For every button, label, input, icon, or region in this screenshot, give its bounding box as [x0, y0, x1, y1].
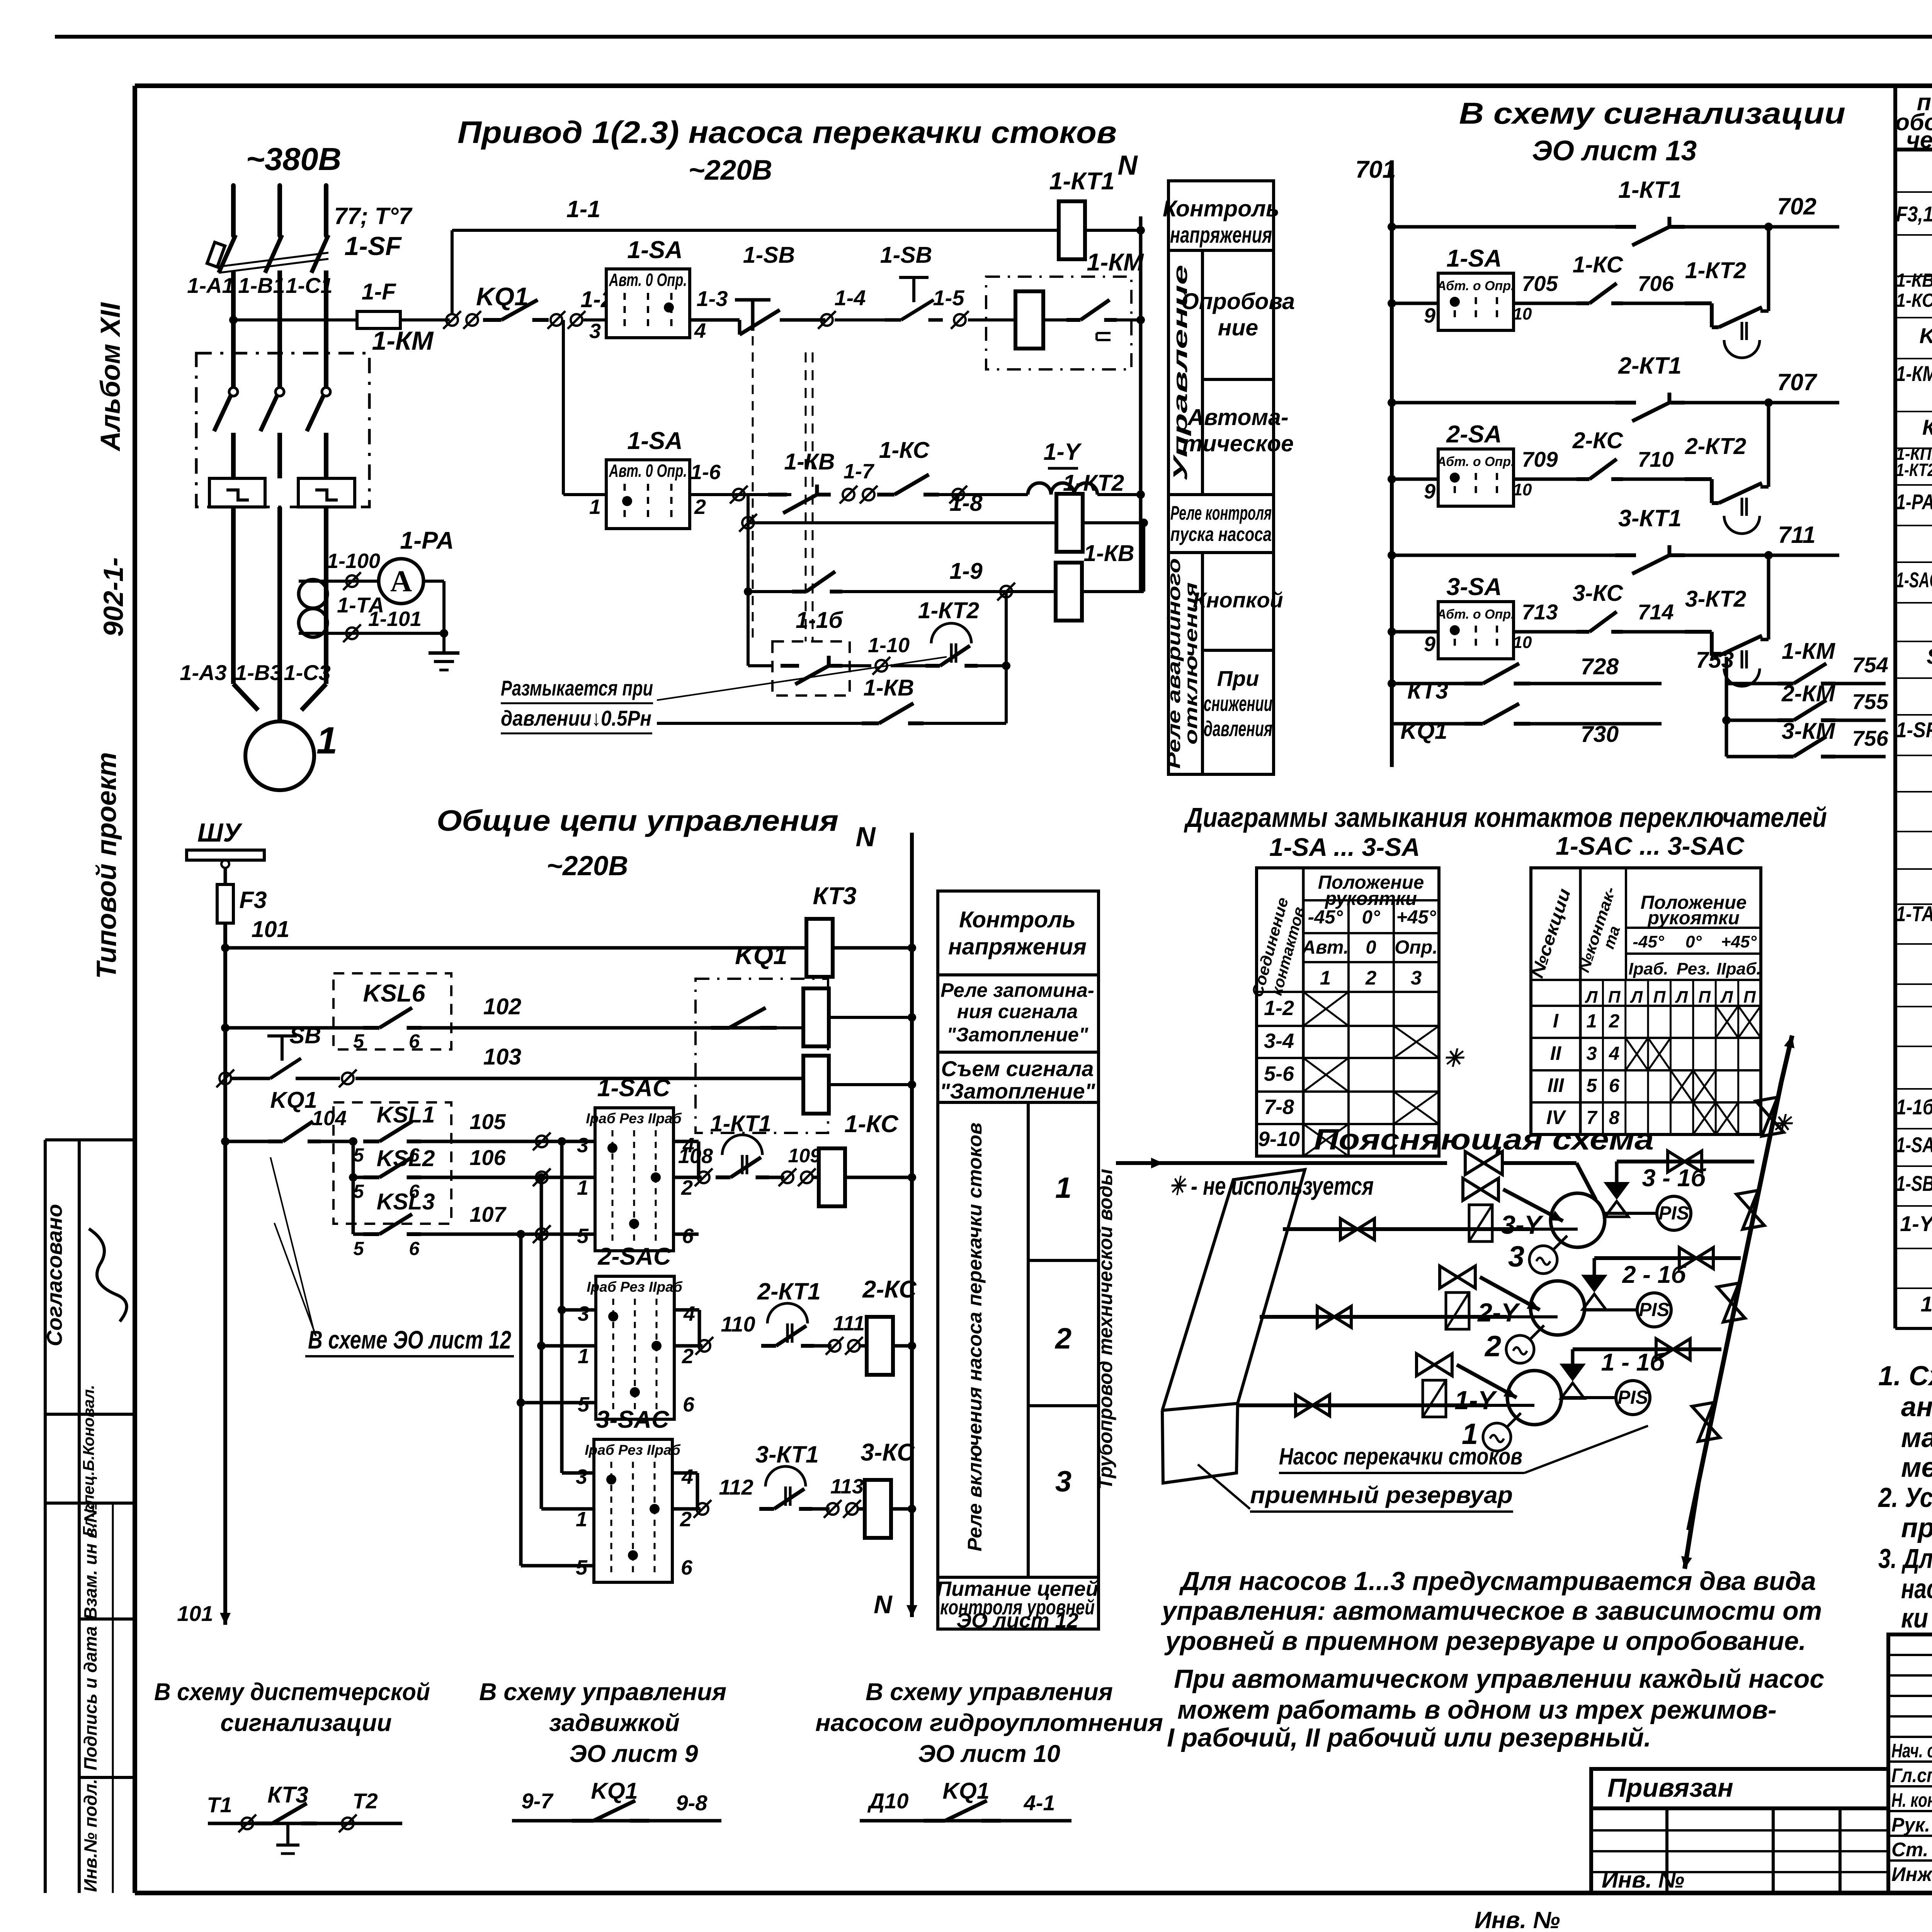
svg-text:N: N [1117, 150, 1138, 181]
contact 2-КТ1 rung 707 [1388, 398, 1396, 407]
svg-text:902-1-: 902-1- [99, 557, 129, 636]
svg-text:Абт. о Опр.: Абт. о Опр. [1436, 607, 1514, 622]
component list table [1893, 86, 1897, 1328]
svg-text:Альбом XII: Альбом XII [95, 302, 126, 452]
svg-text:ЭО лист 12: ЭО лист 12 [956, 1609, 1078, 1632]
selector 1-SA (lower) [562, 320, 565, 495]
svg-text:рукоятки: рукоятки [1647, 908, 1740, 929]
svg-text:111: 111 [833, 1312, 865, 1335]
svg-text:1-КС: 1-КС [879, 437, 930, 463]
solenoid valve 2-Y [1440, 1266, 1475, 1288]
svg-text:713: 713 [1522, 600, 1558, 624]
svg-text:приемный резервуар: приемный резервуар [1250, 1482, 1513, 1508]
svg-text:1-КМ: 1-КМ [1087, 249, 1144, 276]
svg-text:KQ1: KQ1 [735, 941, 787, 969]
svg-text:1-4: 1-4 [835, 286, 866, 310]
svg-text:2: 2 [681, 1176, 693, 1199]
svg-text:Автома-: Автома- [1187, 405, 1288, 430]
svg-text:Трубопровод технической воды: Трубопровод технической воды [1094, 1169, 1116, 1490]
svg-text:1: 1 [1320, 967, 1331, 989]
svg-text:1-КТ2: 1-КТ2 [918, 598, 979, 623]
svg-text:753: 753 [1696, 647, 1734, 673]
contact 1-КТ1 rung 702 [1388, 223, 1396, 231]
svg-text:1-С1: 1-С1 [286, 273, 332, 298]
svg-text:PIS: PIS [1659, 1203, 1689, 1224]
svg-text:1-SA: 1-SA [627, 427, 683, 454]
svg-text:N: N [874, 1590, 893, 1619]
svg-text:Рук. гр.: Рук. гр. [1891, 1814, 1932, 1836]
svg-text:1-РА: 1-РА [400, 527, 454, 554]
svg-text:F3,1-F..3-F: F3,1-F..3-F [1896, 202, 1932, 226]
svg-text:2: 2 [680, 1508, 692, 1531]
svg-text:1...3: 1...3 [1921, 1292, 1932, 1316]
svg-text:Т1: Т1 [207, 1793, 232, 1817]
wire 101 [221, 944, 230, 952]
svg-text:701: 701 [1355, 156, 1396, 183]
svg-text:2: 2 [1484, 1330, 1501, 1363]
svg-text:756: 756 [1852, 726, 1888, 750]
svg-text:3-SAC: 3-SAC [596, 1406, 670, 1433]
svg-text:5: 5 [353, 1238, 364, 1259]
svg-text:6: 6 [682, 1225, 694, 1248]
svg-text:напряжения: напряжения [948, 934, 1087, 959]
svg-text:Абт. о Опр.: Абт. о Опр. [1436, 454, 1514, 469]
svg-text:1-8: 1-8 [949, 490, 982, 516]
pump 2 [1531, 1281, 1585, 1335]
svg-text:давлении↓0.5Рн: давлении↓0.5Рн [501, 706, 651, 730]
svg-text:10: 10 [1513, 633, 1532, 652]
collector (slanted) [1689, 1082, 1781, 1530]
svg-text:Авт. 0 Опр.: Авт. 0 Опр. [609, 270, 687, 290]
svg-text:103: 103 [483, 1044, 522, 1070]
feeder verticals to 2/3-SAC [558, 1137, 566, 1146]
svg-text:ЭО лист 10: ЭО лист 10 [918, 1740, 1060, 1767]
svg-text:0°: 0° [1685, 932, 1702, 951]
relays KSL1 KSL2 KSL3 [333, 1102, 451, 1224]
svg-text:KSL6: KSL6 [363, 980, 425, 1007]
svg-text:1-КВ: 1-КВ [784, 449, 835, 474]
svg-text:Опробова: Опробова [1181, 289, 1295, 314]
svg-text:П: П [1653, 988, 1666, 1007]
svg-text:1-КС...3-КС: 1-КС...3-КС [1896, 290, 1932, 311]
svg-text:1-101: 1-101 [368, 607, 422, 631]
svg-text:Опр.: Опр. [1395, 937, 1438, 958]
wires 105 106 107 [421, 1140, 595, 1143]
svg-text:может работать в одном из: может работать в одном из трех режимов- [1177, 1695, 1777, 1725]
svg-text:ЭО лист 13: ЭО лист 13 [1532, 135, 1697, 167]
svg-text:KQ1: KQ1 [476, 282, 529, 311]
svg-text:2-SAC: 2-SAC [597, 1243, 672, 1270]
circuit breaker 1-SF [219, 235, 236, 273]
svg-text:3-КС: 3-КС [1573, 580, 1624, 606]
svg-text:снижении: снижении [1204, 691, 1272, 716]
svg-text:В схему сигнализации: В схему сигнализации [1459, 96, 1845, 130]
svg-text:маркировки цепей, обозначающа: маркировки цепей, обозначающая номер при… [1901, 1423, 1932, 1453]
svg-text:5: 5 [353, 1145, 364, 1166]
svg-text:~220В: ~220В [546, 851, 628, 881]
relay coil КТ3 [806, 919, 833, 977]
svg-text:SB: SB [1927, 644, 1932, 668]
svg-text:При автоматическом управлени: При автоматическом управлении каждый нас… [1174, 1664, 1824, 1694]
svg-text:KQ1: KQ1 [1400, 718, 1447, 744]
svg-text:2: 2 [1609, 1011, 1619, 1032]
svg-text:10: 10 [1513, 304, 1532, 323]
svg-text:1-10: 1-10 [868, 634, 910, 657]
svg-text:1-7: 1-7 [844, 460, 875, 483]
svg-text:Ст. инж: Ст. инж [1891, 1838, 1932, 1861]
svg-text:ШУ: ШУ [197, 818, 243, 847]
svg-text:707: 707 [1777, 369, 1818, 395]
svg-text:При: При [1217, 666, 1259, 690]
svg-text:1-В3: 1-В3 [235, 660, 282, 685]
svg-text:✳: ✳ [1443, 1045, 1465, 1072]
svg-text:F3: F3 [239, 887, 267, 913]
svg-text:109: 109 [788, 1145, 821, 1167]
contact 3-КТ1 rung 711 [1388, 551, 1396, 560]
svg-text:П: П [1698, 988, 1711, 1007]
svg-text:III: III [1548, 1074, 1565, 1096]
svg-text:1-SA...3-SA: 1-SA...3-SA [1896, 1133, 1932, 1157]
contactor 1-KM power contacts [196, 353, 369, 507]
pressure gauge 2 - 1б [1637, 1293, 1671, 1327]
selector 3-SA rung [1388, 628, 1396, 636]
svg-text:Рез.: Рез. [1677, 959, 1711, 978]
svg-text:Привод 1(2.3) насоса перекач: Привод 1(2.3) насоса перекачки стоков [457, 115, 1117, 150]
svg-text:напряжения: напряжения [1170, 222, 1272, 248]
svg-text:I: I [1553, 1010, 1559, 1032]
svg-text:Типовой проект: Типовой проект [92, 752, 122, 979]
svg-text:1-SA ... 3-SA: 1-SA ... 3-SA [1269, 833, 1420, 861]
svg-text:2-КМ: 2-КМ [1781, 681, 1836, 706]
svg-text:1-1: 1-1 [566, 196, 600, 222]
pump 3 [1551, 1193, 1605, 1247]
svg-text:Авт. 0 Опр.: Авт. 0 Опр. [609, 461, 687, 481]
svg-text:Подпись и дата: Подпись и дата [80, 1626, 100, 1770]
discharge headers to collector [1617, 1160, 1754, 1163]
svg-text:SB: SB [289, 1023, 321, 1048]
svg-text:ЭО лист 9: ЭО лист 9 [569, 1740, 698, 1767]
svg-text:Л: Л [1675, 988, 1688, 1007]
svg-text:В схему управления: В схему управления [479, 1679, 726, 1706]
wire: phase A tap to control [229, 316, 238, 324]
svg-text:2: 2 [694, 495, 706, 519]
svg-text:1-Y: 1-Y [1454, 1386, 1497, 1415]
svg-text:0: 0 [1366, 937, 1376, 958]
svg-text:Л: Л [1720, 988, 1733, 1007]
svg-text:2-КС: 2-КС [1572, 428, 1624, 453]
svg-text:1-3: 1-3 [697, 286, 728, 311]
svg-text:1-SA: 1-SA [627, 236, 683, 264]
svg-text:Н. контр.: Н. контр. [1891, 1789, 1932, 1811]
svg-text:рукоятки: рукоятки [1324, 888, 1417, 909]
svg-text:2-SA: 2-SA [1446, 421, 1502, 448]
fragment T1 КТ3 Т2 [208, 1822, 402, 1825]
svg-text:1-КТ2: 1-КТ2 [1063, 470, 1124, 496]
svg-text:9-7: 9-7 [522, 1789, 554, 1813]
svg-text:Контроль: Контроль [1163, 196, 1279, 221]
button SB / wire 103 [219, 1073, 231, 1084]
svg-text:меняется на 2 и 3.: меняется на 2 и 3. [1901, 1452, 1932, 1483]
svg-text:+45°: +45° [1396, 907, 1436, 928]
svg-text:9: 9 [1424, 304, 1435, 327]
svg-text:Инженер: Инженер [1891, 1863, 1932, 1885]
svg-text:9: 9 [1424, 633, 1435, 656]
svg-text:2-КТ1: 2-КТ1 [757, 1278, 821, 1304]
svg-text:2. Уставку времени реле 1-КТ2: 2. Уставку времени реле 1-КТ2... 3-КТ2 п… [1878, 1483, 1932, 1513]
svg-text:Iраб Рез IIраб: Iраб Рез IIраб [587, 1279, 682, 1295]
svg-text:702: 702 [1777, 193, 1816, 219]
svg-text:Общие цепи управления: Общие цепи управления [437, 804, 838, 837]
svg-text:Iраб Рез IIраб: Iраб Рез IIраб [586, 1111, 682, 1126]
svg-text:Реле запомина-: Реле запомина- [940, 979, 1094, 1001]
thermal elements [209, 478, 265, 507]
svg-text:10: 10 [1513, 480, 1532, 499]
svg-text:П: П [1608, 988, 1621, 1007]
phase line top x=844 [324, 185, 328, 236]
fuse F3 [217, 884, 233, 923]
selector 1-SA rung [1388, 299, 1396, 308]
svg-text:1-SF: 1-SF [344, 231, 402, 261]
ground symbol [442, 633, 446, 653]
svg-text:2-КТ1: 2-КТ1 [1618, 352, 1682, 379]
contact 1-КС [877, 493, 895, 497]
жила slanted feeds into pumps [1503, 1189, 1563, 1221]
svg-text:1-КТ1: 1-КТ1 [1049, 168, 1114, 195]
selector 2-SA rung [1388, 475, 1396, 483]
svg-text:1-100: 1-100 [327, 549, 380, 573]
svg-text:3: 3 [589, 320, 601, 343]
svg-text:управления: автоматическое в: управления: автоматическое в зависимости… [1161, 1596, 1822, 1626]
svg-text:Д10: Д10 [867, 1789, 909, 1813]
contact КТ3 rung 728 [1388, 679, 1396, 688]
svg-text:П: П [1743, 988, 1756, 1007]
svg-text:Диаграммы замыкания контакто: Диаграммы замыкания контактов переключат… [1184, 803, 1827, 833]
svg-text:4: 4 [683, 1302, 695, 1325]
svg-text:КТ3: КТ3 [1922, 415, 1932, 439]
svg-text:Iраб.: Iраб. [1628, 959, 1668, 978]
phase line top x=604 [231, 185, 236, 236]
svg-text:-45°: -45° [1308, 907, 1343, 928]
contact KQ1 / wire 104 [221, 1137, 230, 1146]
svg-text:1: 1 [1055, 1172, 1071, 1204]
svg-text:2: 2 [1365, 967, 1376, 989]
svg-text:2: 2 [682, 1345, 694, 1368]
svg-text:706: 706 [1638, 271, 1674, 296]
svg-text:3-КС: 3-КС [861, 1439, 915, 1466]
receiving reservoir (3D box) [1162, 1170, 1305, 1410]
N bus (drive) [1139, 216, 1143, 591]
svg-text:2: 2 [1054, 1322, 1071, 1355]
svg-text:1-Y: 1-Y [1044, 439, 1082, 465]
svg-text:Взам. ин в.№: Взам. ин в.№ [80, 1502, 100, 1620]
svg-text:~380В: ~380В [246, 141, 342, 177]
svg-text:1-SB...3-SB: 1-SB...3-SB [1896, 1171, 1932, 1196]
fuse 1-F [357, 311, 400, 328]
svg-text:5: 5 [578, 1393, 590, 1416]
svg-text:5: 5 [576, 1556, 588, 1579]
svg-text:II: II [1550, 1042, 1562, 1064]
svg-text:3-4: 3-4 [1264, 1029, 1294, 1053]
svg-text:сигнализации: сигнализации [220, 1709, 392, 1736]
selector switch 1-SA [606, 269, 690, 338]
svg-text:101: 101 [177, 1601, 213, 1626]
svg-text:1: 1 [1587, 1011, 1597, 1032]
svg-text:В схеме ЭО лист 12: В схеме ЭО лист 12 [308, 1325, 511, 1354]
svg-text:PIS: PIS [1639, 1299, 1670, 1320]
relay coil 1-КТ1 [1059, 201, 1085, 259]
svg-text:5: 5 [577, 1225, 589, 1248]
fragment Д10 KQ1 4-1 [860, 1819, 1071, 1823]
svg-text:PIS: PIS [1618, 1387, 1648, 1408]
svg-text:В схему управления: В схему управления [866, 1679, 1113, 1706]
svg-text:3-КТ1: 3-КТ1 [1618, 505, 1682, 531]
svg-text:КТ3: КТ3 [267, 1782, 308, 1808]
svg-text:КТ3: КТ3 [813, 883, 856, 910]
motor 3 [1529, 1246, 1557, 1274]
svg-text:KSL2: KSL2 [377, 1146, 435, 1171]
svg-text:аналогичны. Цифра 1 в левой ч: аналогичны. Цифра 1 в левой части обозна… [1901, 1392, 1932, 1422]
selector switch 2-SA [1438, 449, 1514, 506]
svg-text:5: 5 [353, 1030, 364, 1052]
svg-text:2-КС: 2-КС [862, 1276, 917, 1303]
svg-text:Реле включения насоса перекач: Реле включения насоса перекачки стоков [964, 1122, 986, 1551]
svg-text:чение: чение [1906, 127, 1932, 153]
svg-text:IIраб.: IIраб. [1716, 959, 1761, 978]
svg-text:730: 730 [1581, 721, 1619, 747]
motor 2 [1506, 1335, 1534, 1363]
svg-text:"Затопление": "Затопление" [940, 1079, 1096, 1103]
pipes from reservoir [1283, 1227, 1530, 1231]
svg-text:Л: Л [1630, 988, 1643, 1007]
svg-text:1-SA: 1-SA [1446, 245, 1502, 272]
svg-text:705: 705 [1522, 271, 1558, 296]
svg-text:3: 3 [1411, 967, 1422, 989]
svg-text:тическое: тическое [1182, 431, 1294, 456]
svg-text:4: 4 [681, 1465, 693, 1488]
svg-text:1-SAC ... 3-SAC: 1-SAC ... 3-SAC [1556, 832, 1745, 860]
svg-text:1: 1 [578, 1345, 589, 1368]
svg-text:1-КВ: 1-КВ [1083, 541, 1134, 566]
svg-text:1-1б...3-1б: 1-1б...3-1б [1896, 1095, 1932, 1119]
solenoid valve 3-Y [1463, 1178, 1498, 1200]
svg-text:2-КТ2: 2-КТ2 [1685, 434, 1746, 459]
svg-text:I рабочий, II рабочий или р: I рабочий, II рабочий или резервный. [1167, 1723, 1651, 1752]
pressure gauge 1 - 1б [1616, 1381, 1650, 1415]
svg-text:104: 104 [312, 1107, 347, 1130]
rung 1-9 with coil 1-КВ [744, 587, 752, 596]
svg-text:2 - 1б: 2 - 1б [1622, 1261, 1687, 1288]
svg-text:1-КВ...3-КВ: 1-КВ...3-КВ [1896, 270, 1932, 291]
svg-text:2-Y: 2-Y [1477, 1298, 1520, 1327]
svg-text:1-2: 1-2 [1264, 997, 1294, 1020]
selector 2-SAC [596, 1276, 674, 1419]
svg-text:1: 1 [576, 1508, 587, 1531]
svg-text:1-В1: 1-В1 [238, 273, 285, 298]
svg-text:1-КС: 1-КС [844, 1111, 899, 1138]
svg-text:Т2: Т2 [352, 1789, 378, 1813]
svg-text:9: 9 [1424, 480, 1435, 503]
svg-text:3: 3 [576, 1465, 587, 1488]
svg-text:насосов 1...3 после кратковре: насосов 1...3 после кратковременного исч… [1901, 1574, 1932, 1604]
svg-text:3-Y: 3-Y [1501, 1210, 1544, 1240]
wire 1-1 to relay 1-КТ1 [451, 230, 454, 314]
svg-text:1: 1 [316, 719, 338, 762]
svg-text:ния сигнала: ния сигнала [957, 1000, 1078, 1022]
svg-text:KQ1: KQ1 [270, 1087, 317, 1113]
svg-text:Реле контроля: Реле контроля [1170, 502, 1272, 524]
svg-text:728: 728 [1581, 654, 1619, 679]
svg-text:1-SAC..3SAC: 1-SAC..3SAC [1896, 568, 1932, 592]
svg-text:1-SAC: 1-SAC [597, 1075, 671, 1102]
diagram table 1-SA [1257, 868, 1439, 1156]
current transformer 1-ТА [231, 580, 236, 684]
svg-text:3-КТ1: 3-КТ1 [755, 1441, 819, 1468]
selector switch 3-SA [1438, 602, 1514, 659]
svg-text:5-6: 5-6 [1264, 1062, 1294, 1085]
selector switch 1-SA [1438, 273, 1514, 330]
svg-text:5: 5 [353, 1181, 364, 1202]
svg-text:1-КМ: 1-КМ [1782, 638, 1836, 664]
motor 1 [233, 684, 258, 710]
svg-text:0°: 0° [1362, 907, 1380, 928]
svg-text:6: 6 [409, 1238, 420, 1259]
relay KSL6 (затопление) [221, 1024, 230, 1032]
fragment 9-7 KQ1 9-8 [512, 1819, 721, 1823]
svg-text:755: 755 [1852, 689, 1888, 714]
svg-text:Инв. №: Инв. № [1602, 1867, 1684, 1893]
annotation column (common circuits) [938, 891, 1099, 1629]
svg-text:при наладке и эксплуатации.: при наладке и эксплуатации. [1901, 1513, 1932, 1543]
svg-text:Авт.: Авт. [1302, 937, 1349, 958]
svg-text:102: 102 [483, 994, 522, 1019]
selector 1-SAC [595, 1108, 673, 1251]
svg-text:ние: ние [1218, 315, 1259, 340]
svg-text:Согласовано: Согласовано [42, 1204, 66, 1346]
pump 1 [1507, 1371, 1561, 1425]
svg-text:задвижкой: задвижкой [549, 1709, 680, 1736]
svg-text:1-SB: 1-SB [880, 242, 932, 268]
svg-text:Кнопкой: Кнопкой [1193, 588, 1283, 612]
svg-text:1: 1 [577, 1176, 588, 1199]
svg-text:Iраб Рез IIраб: Iраб Рез IIраб [585, 1442, 680, 1458]
rung 1-8 with coil 1-КТ2 [747, 495, 750, 666]
svg-text:3: 3 [1508, 1240, 1524, 1273]
svg-text:1-9: 1-9 [949, 558, 982, 584]
svg-text:Для насосов 1...3 предусмат: Для насосов 1...3 предусматривается два … [1179, 1566, 1816, 1596]
svg-text:+45°: +45° [1721, 932, 1757, 951]
contact KQ1 rung 730 [1392, 722, 1464, 726]
svg-text:В схему диспетчерской: В схему диспетчерской [154, 1679, 430, 1706]
top feed pipe with arrow [1116, 1161, 1163, 1165]
svg-text:КТ3: КТ3 [1407, 678, 1448, 704]
svg-text:112: 112 [719, 1475, 753, 1499]
svg-text:106: 106 [469, 1145, 506, 1170]
selector switch 1-SA [606, 460, 690, 529]
contactor coil 1-КМ with aux contact [986, 277, 1131, 369]
svg-text:6: 6 [683, 1393, 695, 1416]
svg-text:1-ТА...3-ТА: 1-ТА...3-ТА [1896, 901, 1932, 926]
svg-text:113: 113 [830, 1475, 864, 1498]
svg-text:1-КС: 1-КС [1573, 252, 1624, 277]
svg-text:1-КТ2: 1-КТ2 [1685, 258, 1746, 283]
svg-text:108: 108 [678, 1145, 713, 1168]
svg-text:107: 107 [469, 1202, 507, 1226]
svg-text:3: 3 [1587, 1043, 1597, 1064]
svg-text:Съем сигнала: Съем сигнала [941, 1056, 1094, 1081]
svg-text:3: 3 [577, 1134, 588, 1157]
svg-text:754: 754 [1852, 653, 1888, 677]
pressure gauge 3 - 1б [1657, 1196, 1691, 1230]
